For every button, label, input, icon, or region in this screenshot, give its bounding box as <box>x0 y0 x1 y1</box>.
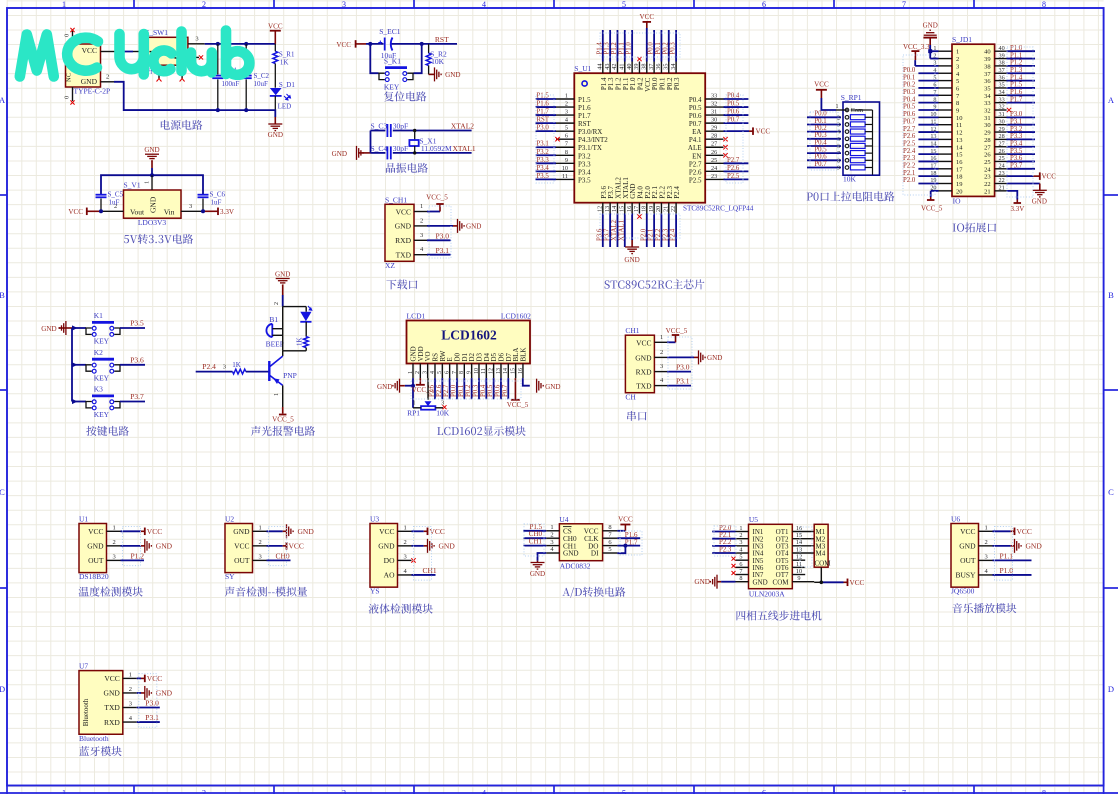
svg-text:P0.3: P0.3 <box>472 384 479 397</box>
svg-text:1: 1 <box>413 401 416 407</box>
svg-text:GND: GND <box>149 196 158 213</box>
svg-text:P0.2: P0.2 <box>662 42 669 55</box>
svg-text:NC: NC <box>66 73 73 82</box>
red flags under switch pins <box>157 79 185 82</box>
svg-text:P0.6: P0.6 <box>494 384 501 397</box>
resistor S_R1 1K <box>274 44 276 51</box>
svg-text:7: 7 <box>452 371 458 374</box>
svg-text:P2.6: P2.6 <box>903 133 916 140</box>
svg-text:2: 2 <box>202 0 206 9</box>
JD1 pin20 VCC_5 below <box>930 191 932 197</box>
svg-text:P3.4: P3.4 <box>578 168 591 176</box>
svg-text:SY: SY <box>225 572 235 581</box>
svg-text:4: 4 <box>565 117 568 124</box>
svg-text:KEY: KEY <box>94 410 110 419</box>
svg-text:S_D1: S_D1 <box>279 81 295 89</box>
svg-text:25: 25 <box>984 159 991 166</box>
svg-text:18: 18 <box>640 206 647 212</box>
svg-text:RP1: RP1 <box>407 408 420 417</box>
svg-text:P0.7: P0.7 <box>689 120 702 128</box>
svg-text:Bluetooth: Bluetooth <box>82 698 90 726</box>
svg-text:P3.7: P3.7 <box>130 392 144 401</box>
dotted selection marks U1 top <box>600 33 680 57</box>
svg-text:P2.0: P2.0 <box>640 228 647 241</box>
svg-text:14: 14 <box>611 206 618 212</box>
svg-text:13: 13 <box>956 137 963 144</box>
module U6 JQ6500 <box>951 524 979 588</box>
svg-text:6: 6 <box>739 561 742 568</box>
dotted selection marks U4 right <box>620 531 642 555</box>
svg-text:P2.7: P2.7 <box>903 126 916 133</box>
svg-text:2: 2 <box>985 539 988 546</box>
svg-text:12: 12 <box>597 206 604 212</box>
switch contact circle <box>178 41 183 46</box>
svg-text:4: 4 <box>430 371 436 374</box>
svg-text:P3.0: P3.0 <box>676 363 690 372</box>
svg-text:U3: U3 <box>370 515 379 524</box>
svg-text:3: 3 <box>404 553 407 560</box>
dotted selection marks U2 <box>269 527 287 566</box>
svg-text:31: 31 <box>711 109 717 116</box>
no-ERC mark top pin J1 <box>70 28 74 32</box>
svg-text:22: 22 <box>670 206 677 212</box>
svg-text:14: 14 <box>956 144 963 151</box>
junction rail C2 <box>244 108 248 112</box>
svg-text:S_C2: S_C2 <box>254 72 270 80</box>
svg-text:21: 21 <box>662 206 669 212</box>
svg-text:A: A <box>0 95 6 105</box>
svg-text:31: 31 <box>999 111 1005 118</box>
caption LCD1602 module <box>437 426 526 436</box>
svg-text:11: 11 <box>562 173 568 180</box>
svg-text:P3.0: P3.0 <box>537 125 550 132</box>
svg-text:P0.3: P0.3 <box>814 132 827 139</box>
svg-text:LCD1602: LCD1602 <box>441 328 497 343</box>
svg-text:KEY: KEY <box>94 373 110 382</box>
connector CH1 serial <box>625 335 654 393</box>
svg-text:27: 27 <box>984 144 991 151</box>
connector S_JD1 IO expansion <box>952 44 995 196</box>
svg-text:20: 20 <box>655 206 662 212</box>
U4 pin7 CLK net P1.6 <box>617 537 640 539</box>
svg-text:2: 2 <box>259 539 262 546</box>
svg-text:36: 36 <box>655 64 662 70</box>
svg-text:U1: U1 <box>79 515 88 524</box>
caption IO expansion <box>953 222 997 232</box>
svg-text:19: 19 <box>648 206 655 212</box>
stepper connector M <box>814 524 828 567</box>
svg-text:P0.4: P0.4 <box>480 384 487 397</box>
svg-text:P2.1: P2.1 <box>648 229 655 241</box>
caption liquid module <box>369 604 433 614</box>
switch right stub pin <box>188 56 199 58</box>
svg-text:37: 37 <box>648 64 655 70</box>
U5 COM wire to VCC <box>814 581 821 583</box>
svg-text:P1.5: P1.5 <box>1010 82 1023 89</box>
svg-text:P0.4: P0.4 <box>689 96 702 104</box>
svg-text:P3.1/TX: P3.1/TX <box>578 144 602 152</box>
alarm bottom node <box>283 350 307 352</box>
pin 3 VCC of J1 <box>101 51 116 53</box>
svg-text:C: C <box>0 487 5 497</box>
svg-text:P1.0: P1.0 <box>1010 45 1023 52</box>
svg-text:14: 14 <box>503 368 509 374</box>
svg-text:CH: CH <box>625 393 636 402</box>
svg-text:D: D <box>0 684 5 694</box>
svg-text:RXD: RXD <box>636 368 652 377</box>
svg-text:10uF: 10uF <box>254 80 269 88</box>
LCD pin16 BLK to GND right <box>523 378 530 386</box>
svg-text:5: 5 <box>956 78 959 85</box>
svg-text:ADC0832: ADC0832 <box>560 562 591 571</box>
svg-text:VCC_5: VCC_5 <box>272 415 294 423</box>
svg-text:P2.2: P2.2 <box>655 228 662 241</box>
svg-text:GND: GND <box>1032 198 1047 206</box>
svg-text:1: 1 <box>739 525 742 532</box>
svg-text:RST: RST <box>537 117 550 124</box>
wire J1 GND down to ground rail <box>114 82 218 110</box>
svg-text:P1.1: P1.1 <box>1010 52 1022 59</box>
svg-text:P2.1: P2.1 <box>903 170 915 177</box>
svg-text:30: 30 <box>711 117 717 124</box>
junction keys trunk row K2 <box>72 362 78 367</box>
svg-text:P3.1: P3.1 <box>436 246 450 255</box>
svg-text:CH0: CH0 <box>276 551 290 560</box>
svg-text:P1.7: P1.7 <box>1010 96 1023 103</box>
svg-text:S_C4: S_C4 <box>371 144 388 153</box>
RP1 element 2 net P0.0 <box>807 116 841 118</box>
capacitor S_C4 30pF <box>371 152 386 154</box>
svg-text:VCC_5: VCC_5 <box>412 386 434 394</box>
svg-text:100nF: 100nF <box>222 80 240 88</box>
svg-text:P3.7: P3.7 <box>1010 163 1023 170</box>
svg-text:2: 2 <box>565 101 568 108</box>
svg-text:32: 32 <box>711 101 717 108</box>
switch S_SW1 <box>146 37 188 65</box>
svg-text:P2.7: P2.7 <box>443 384 450 397</box>
svg-text:3: 3 <box>189 203 192 210</box>
svg-text:P3.1: P3.1 <box>537 141 549 148</box>
svg-text:10K: 10K <box>843 174 857 183</box>
pin 3 of switch <box>188 43 205 45</box>
svg-text:P0.1: P0.1 <box>655 42 662 54</box>
svg-text:6: 6 <box>444 371 450 374</box>
LDO pin 1 GND top <box>151 175 153 190</box>
svg-text:U6: U6 <box>951 515 960 524</box>
svg-text:1: 1 <box>144 181 151 184</box>
dotted selection marks serial <box>668 337 692 389</box>
svg-text:P3.2: P3.2 <box>578 152 591 160</box>
dotted selection marks JD1 right <box>1007 47 1033 197</box>
svg-text:34: 34 <box>984 93 991 100</box>
svg-text:3: 3 <box>195 36 198 43</box>
junction reset right <box>420 42 424 46</box>
LCD1602 display LCD1 <box>407 321 531 364</box>
svg-text:35: 35 <box>999 82 1005 89</box>
svg-text:0: 0 <box>64 96 71 99</box>
svg-text:5: 5 <box>437 371 443 374</box>
svg-text:7: 7 <box>565 141 568 148</box>
svg-text:TXD: TXD <box>396 250 412 259</box>
svg-text:0: 0 <box>64 34 71 37</box>
module U1 DS18B20 <box>79 524 107 573</box>
svg-text:OUT: OUT <box>88 556 104 565</box>
svg-text:S_K1: S_K1 <box>384 57 401 66</box>
pin 0 bottom of J1 <box>72 87 74 101</box>
svg-text:12: 12 <box>956 130 963 137</box>
download pin 4 TXD <box>414 254 427 256</box>
svg-text:U5: U5 <box>749 515 758 524</box>
svg-text:RST: RST <box>578 120 592 128</box>
svg-text:EN: EN <box>692 152 701 160</box>
svg-text:P3.1: P3.1 <box>676 377 690 386</box>
svg-text:35: 35 <box>662 64 669 70</box>
U4 pin8 VCC <box>617 530 625 532</box>
svg-text:1: 1 <box>550 524 553 531</box>
svg-text:40: 40 <box>999 45 1005 52</box>
dotted selection marks U1 right <box>726 95 743 183</box>
svg-text:LCD1602: LCD1602 <box>501 312 531 321</box>
svg-text:3: 3 <box>985 553 988 560</box>
caption temperature module <box>79 587 143 597</box>
svg-text:VCC_5: VCC_5 <box>666 327 688 335</box>
capacitor S_C5 1uF <box>100 199 102 212</box>
svg-text:BEEP: BEEP <box>266 339 284 348</box>
svg-text:2: 2 <box>404 539 407 546</box>
switch bottom pin 2 <box>181 65 183 78</box>
buzzer B1 BEEP <box>266 324 272 337</box>
svg-text:P0.6: P0.6 <box>814 154 827 161</box>
caption sound module <box>225 587 307 597</box>
power port 3.3V <box>203 210 218 212</box>
LCD pin1 wire to gnd and pot <box>412 378 414 408</box>
svg-text:S_JD1: S_JD1 <box>952 35 972 44</box>
svg-text:3: 3 <box>342 0 346 9</box>
caption stepper motor <box>737 611 822 621</box>
svg-text:P0.2: P0.2 <box>903 82 916 89</box>
svg-text:P2.2: P2.2 <box>903 163 916 170</box>
svg-text:GND: GND <box>275 271 290 279</box>
capacitor S_C6 1uF <box>202 199 204 212</box>
svg-text:B: B <box>0 290 5 300</box>
svg-text:23: 23 <box>999 170 1005 177</box>
svg-text:VCC: VCC <box>396 207 411 216</box>
svg-text:VCC: VCC <box>68 208 83 216</box>
svg-text:PNP: PNP <box>283 371 297 380</box>
serial pin 1 VCC <box>654 341 667 343</box>
wire switch to VCC rail <box>205 43 276 45</box>
svg-text:S_R1: S_R1 <box>279 51 295 59</box>
svg-text:P3.0: P3.0 <box>1010 111 1023 118</box>
svg-text:40: 40 <box>984 49 991 56</box>
svg-text:RXD: RXD <box>104 718 120 727</box>
svg-text:OUT: OUT <box>234 556 250 565</box>
svg-text:P2.1: P2.1 <box>719 532 731 539</box>
svg-text:DO: DO <box>384 556 395 565</box>
svg-text:GND: GND <box>156 541 173 550</box>
svg-text:18: 18 <box>956 174 963 181</box>
svg-text:C: C <box>1108 487 1114 497</box>
svg-text:32: 32 <box>984 108 991 115</box>
dotted selection marks U3 <box>414 527 432 581</box>
svg-text:GND: GND <box>959 542 976 551</box>
svg-text:42: 42 <box>611 64 618 70</box>
wire J1 VCC to switch <box>115 51 133 53</box>
svg-text:P0.0: P0.0 <box>648 42 655 55</box>
svg-text:P0.1: P0.1 <box>903 74 915 81</box>
svg-text:P0.4: P0.4 <box>727 93 740 100</box>
svg-text:2: 2 <box>550 531 553 538</box>
svg-text:34: 34 <box>670 64 677 70</box>
svg-text:VCC: VCC <box>82 46 97 55</box>
caption crystal circuit <box>386 163 428 173</box>
svg-text:9: 9 <box>466 371 472 374</box>
svg-text:5: 5 <box>622 789 626 794</box>
svg-text:1: 1 <box>274 393 280 396</box>
svg-text:20: 20 <box>956 188 963 195</box>
svg-text:B: B <box>1108 290 1114 300</box>
svg-text:GND: GND <box>635 353 652 362</box>
svg-text:P2.3: P2.3 <box>903 155 916 162</box>
key K2 <box>72 364 86 366</box>
svg-text:1: 1 <box>565 93 568 100</box>
svg-text:3: 3 <box>420 232 423 239</box>
caption alarm circuit <box>251 426 315 436</box>
svg-text:P3.3: P3.3 <box>537 157 550 164</box>
svg-text:5: 5 <box>608 546 611 553</box>
svg-text:P2.7: P2.7 <box>727 157 740 164</box>
svg-text:1uF: 1uF <box>109 199 120 207</box>
svg-text:P0.4: P0.4 <box>814 139 827 146</box>
RP1 element 4 net P0.2 <box>807 131 841 133</box>
svg-text:P2.6: P2.6 <box>727 165 740 172</box>
LED alarm <box>300 312 311 322</box>
svg-text:13: 13 <box>496 368 502 374</box>
svg-text:P2.6: P2.6 <box>436 384 443 397</box>
caption MCU <box>605 279 705 289</box>
LCD pin2 VDD to VCC_5 <box>419 378 421 384</box>
svg-text:S_C5: S_C5 <box>108 191 124 199</box>
svg-text:1: 1 <box>62 0 66 9</box>
svg-text:CH1: CH1 <box>423 566 437 575</box>
svg-text:P1.3: P1.3 <box>604 42 611 55</box>
svg-text:15: 15 <box>510 368 516 374</box>
svg-text:K1: K1 <box>94 311 103 320</box>
svg-text:2: 2 <box>274 302 280 305</box>
svg-text:24: 24 <box>711 165 717 172</box>
svg-text:2: 2 <box>415 371 421 374</box>
svg-text:2: 2 <box>956 56 959 63</box>
svg-text:AO: AO <box>384 571 395 580</box>
svg-text:P0.2: P0.2 <box>465 384 472 397</box>
svg-text:B1: B1 <box>269 315 278 324</box>
pin 2 GND of J1 <box>101 81 115 83</box>
svg-text:31: 31 <box>984 115 991 122</box>
svg-text:P3.5: P3.5 <box>578 176 591 184</box>
svg-text:32: 32 <box>999 104 1005 111</box>
emitter to VCC_5 <box>282 385 284 407</box>
svg-text:P1.2: P1.2 <box>1010 60 1023 67</box>
svg-text:XTAL2: XTAL2 <box>451 122 474 131</box>
svg-text:4: 4 <box>482 789 486 794</box>
caption ADC circuit <box>562 587 625 598</box>
wire K2 to net P3.6 <box>120 364 145 366</box>
download pin 3 RXD <box>414 239 427 241</box>
svg-text:P3.0: P3.0 <box>436 231 450 240</box>
svg-text:LCD1: LCD1 <box>407 312 426 321</box>
svg-text:9: 9 <box>565 157 568 164</box>
svg-text:P0.1: P0.1 <box>458 385 465 397</box>
LCD pin15 BLA to VCC_5 <box>514 378 516 399</box>
svg-text:STC89C52RC_LQFP44: STC89C52RC_LQFP44 <box>683 205 754 213</box>
svg-text:44: 44 <box>597 64 604 70</box>
svg-text:GND: GND <box>439 541 456 550</box>
svg-text:2: 2 <box>739 532 742 539</box>
svg-text:17: 17 <box>956 166 963 173</box>
svg-text:26: 26 <box>711 149 717 156</box>
svg-text:P0.7: P0.7 <box>502 384 509 397</box>
svg-text:GND: GND <box>923 22 938 30</box>
svg-text:43: 43 <box>604 64 611 70</box>
svg-text:VCC: VCC <box>268 23 283 31</box>
RP1 right bus <box>872 110 874 175</box>
serial pin 3 RXD <box>654 371 667 373</box>
svg-text:3: 3 <box>565 109 568 116</box>
svg-text:3.3V: 3.3V <box>1011 205 1025 213</box>
svg-text:5: 5 <box>739 554 742 561</box>
svg-text:8: 8 <box>1042 0 1046 9</box>
svg-text:11: 11 <box>956 122 962 129</box>
svg-text:1: 1 <box>62 789 66 794</box>
svg-text:P3.4: P3.4 <box>1010 140 1023 147</box>
svg-text:VCC: VCC <box>1017 527 1032 536</box>
svg-text:P1.0: P1.0 <box>1000 566 1014 575</box>
caption download port <box>386 279 417 289</box>
svg-text:1K: 1K <box>280 59 289 67</box>
svg-text:4: 4 <box>482 0 486 9</box>
svg-text:8: 8 <box>608 524 611 531</box>
svg-text:6: 6 <box>762 789 766 794</box>
svg-text:24: 24 <box>984 166 991 173</box>
RP1 common pin <box>836 109 848 111</box>
svg-text:19: 19 <box>956 181 963 188</box>
svg-text:P3.1: P3.1 <box>1010 118 1022 125</box>
svg-text:P1.6: P1.6 <box>578 104 591 112</box>
svg-text:ALE: ALE <box>688 144 702 152</box>
wire reset top <box>366 43 384 45</box>
junction Vin <box>201 209 205 213</box>
dotted selection marks U1 bottom <box>600 214 680 238</box>
svg-text:GND: GND <box>530 570 545 578</box>
junction LDO gnd <box>150 173 154 177</box>
svg-text:P3.2: P3.2 <box>537 149 550 156</box>
svg-text:7: 7 <box>902 789 906 794</box>
svg-text:3: 3 <box>550 539 553 546</box>
svg-text:VCC_3.3: VCC_3.3 <box>903 43 930 51</box>
svg-text:41: 41 <box>618 64 625 70</box>
svg-text:21: 21 <box>984 188 991 195</box>
caption music module <box>953 603 1017 613</box>
svg-text:GND: GND <box>563 550 579 558</box>
svg-text:10K: 10K <box>431 57 445 66</box>
svg-text:GND: GND <box>298 527 315 536</box>
svg-text:S_V1: S_V1 <box>124 181 141 190</box>
svg-text:XTAL1: XTAL1 <box>453 144 476 153</box>
svg-text:P0.5: P0.5 <box>903 104 916 111</box>
no-ERC mark bottom pin J1 <box>70 100 74 104</box>
svg-text:P3.3: P3.3 <box>1010 133 1023 140</box>
svg-text:3: 3 <box>660 363 663 370</box>
